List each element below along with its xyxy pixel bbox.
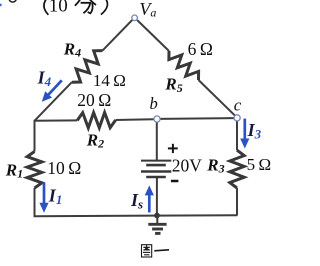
svg-text:b: b — [150, 94, 158, 113]
text fragment top: close paren of （10 分） — [101, 0, 108, 15]
svg-text:Va: Va — [139, 0, 156, 20]
wire: R2 to node b — [116, 118, 154, 121]
resistor R5 (zigzag on right diagonal) — [169, 51, 199, 80]
battery polarity plus sign — [168, 144, 178, 153]
wire: right vertical below R3 to bottom corner — [236, 188, 238, 216]
svg-text:I4: I4 — [37, 68, 52, 90]
wire: bottom rail — [34, 214, 238, 217]
svg-text:Is: Is — [130, 190, 143, 212]
wire: node b to node c — [160, 117, 234, 120]
wire: right vertical node c to R3 — [236, 121, 238, 151]
wire: left corner to R2 — [35, 119, 78, 121]
node c (open circle) — [234, 115, 240, 121]
svg-text:20 Ω: 20 Ω — [77, 90, 111, 110]
svg-text:5 Ω: 5 Ω — [247, 155, 272, 174]
junction dot at battery/ground on bottom rail — [154, 213, 160, 219]
resistor R3 (right vertical zigzag) — [230, 150, 244, 188]
svg-text:6 Ω: 6 Ω — [188, 39, 213, 59]
svg-text:I1: I1 — [48, 185, 63, 207]
caption 圖一 (Figure 1), hand-drawn glyphs — [142, 245, 152, 257]
svg-text:R4: R4 — [63, 39, 81, 59]
current arrow I1 (down) — [43, 183, 46, 205]
svg-text:R5: R5 — [164, 75, 182, 95]
text fragment top: ideographic full stop (bottom arc, cut) — [9, 0, 16, 2]
resistor R2 (horizontal zigzag) — [77, 113, 115, 128]
text fragment top: open paren of （10 分） — [44, 0, 48, 15]
wire: diagonal R4 lower part to left corner — [35, 82, 72, 121]
current arrow I4 (down-left along diagonal) — [47, 80, 62, 96]
svg-text:14 Ω: 14 Ω — [93, 71, 126, 90]
wire: battery - terminal down to bottom rail — [156, 177, 158, 216]
wire: diagonal Va to left corner (upper part) — [103, 20, 133, 51]
battery 20V: plates — [141, 161, 171, 177]
node Va (open circle) — [132, 15, 138, 21]
text fragment top: hand-drawn 分 glyph — [75, 0, 96, 13]
wire: left vertical above R1 — [34, 120, 36, 152]
svg-text:I3: I3 — [247, 120, 262, 142]
svg-text:10: 10 — [49, 0, 68, 17]
wire: diagonal Va to node c (upper part) — [137, 20, 169, 51]
wire: left vertical below R1 to bottom corner — [34, 188, 36, 216]
current arrow I3 (down) — [243, 119, 246, 141]
svg-text:20V: 20V — [172, 156, 203, 176]
node b (open circle) — [154, 116, 160, 122]
resistor R4 (zigzag on left diagonal) — [72, 51, 103, 83]
svg-text:10 Ω: 10 Ω — [47, 158, 81, 178]
svg-text:R2: R2 — [86, 130, 104, 150]
svg-text:R3: R3 — [206, 155, 224, 175]
wire: node b down to battery + terminal — [156, 122, 158, 161]
wire: diagonal R5 lower part to node c — [199, 80, 237, 117]
svg-text:R1: R1 — [5, 160, 23, 180]
ground symbol — [148, 216, 166, 234]
text fragment top: blue tick at left edge — [0, 4, 2, 6]
battery polarity minus sign — [171, 180, 179, 183]
svg-text:c: c — [234, 96, 242, 115]
resistor R1 (left vertical zigzag) — [27, 152, 42, 189]
current arrow Is (up) — [148, 193, 151, 212]
